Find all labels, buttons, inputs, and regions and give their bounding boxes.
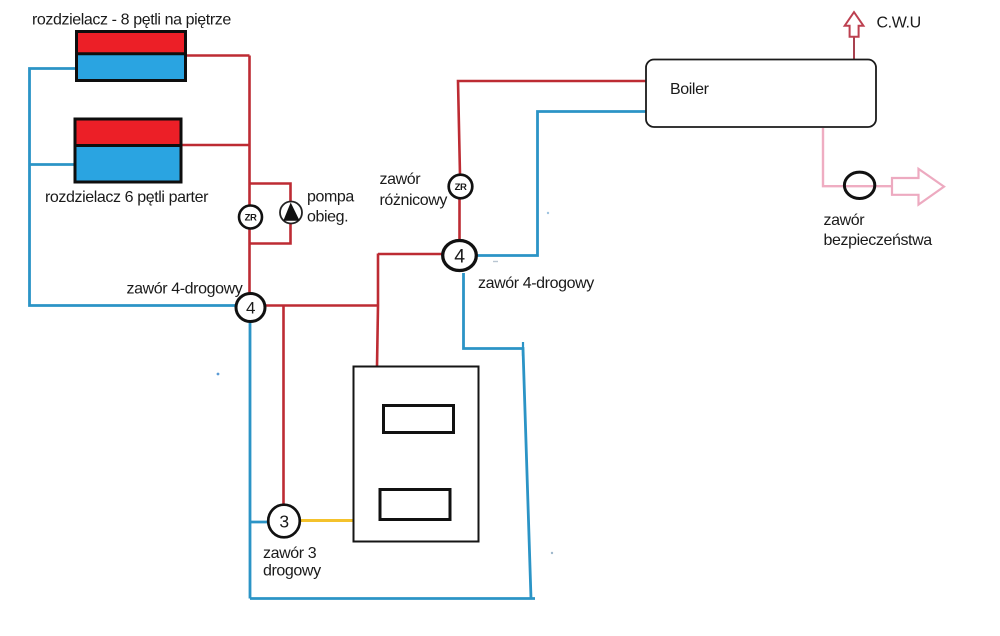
manifold M1 rozdzielacz 8 petli [75,32,187,81]
furnace box [354,367,479,542]
valve ZR right (zawor roznicowy) [449,175,473,199]
wire: yellow 3-way valve to furnace [300,519,356,522]
stray dash [493,261,498,263]
valve 3-way [268,505,300,538]
wire: red main riser ZR to 4-way valve top [248,229,251,295]
wire: red from left 4-way valve right to junction [265,304,379,307]
arrow safety (right block arrow) [892,169,944,205]
manifold M2 rozdzielacz 6 petli [74,119,183,182]
svg-text:zawór: zawór [380,171,422,188]
pump pompa obieg [280,202,302,224]
wire: blue return manifold 2 left edge to left drop [30,163,75,166]
wire: red to right 4-way valve [378,253,444,256]
boiler box [646,60,876,128]
wire: red junction riser up [377,254,380,306]
svg-text:ZR: ZR [455,182,467,193]
arrow C.W.U (up block arrow) [845,12,864,37]
wire: red junction down to furnace top [377,306,378,367]
wire: red differential valve up and right to boiler [458,81,646,175]
wire: red supply from manifold 1 right edge to main riser [187,54,250,57]
svg-text:obieg.: obieg. [307,209,348,226]
wire: red C.W.U stem [853,37,855,60]
valve 4-way left [236,294,265,322]
wire: pink boiler drain through safety valve [823,128,892,186]
wire: red supply from manifold 2 right edge to main riser [182,144,250,147]
valve 4-way right [443,241,477,271]
svg-text:zawór 3: zawór 3 [263,545,317,562]
stray dot 1 [217,373,220,376]
svg-text:Boiler: Boiler [670,81,710,98]
valve ZR left [239,206,262,229]
svg-text:drogowy: drogowy [263,563,321,580]
svg-text:zawór 4-drogowy: zawór 4-drogowy [127,281,243,298]
valve zawor bezpieczenstwa (ellipse) [844,172,874,198]
wire: blue corner tick [522,342,524,356]
svg-text:4: 4 [454,246,465,268]
svg-text:różnicowy: różnicowy [380,192,448,209]
wire: red main riser down to ZR valve [248,56,251,206]
wire: blue stub to 3-way valve [250,521,269,524]
svg-text:4: 4 [246,299,255,318]
svg-text:zawór 4-drogowy: zawór 4-drogowy [478,275,594,292]
svg-text:ZR: ZR [245,213,257,224]
wire: blue right riser to right 4-way valve bottom [464,273,532,599]
svg-text:bezpieczeństwa: bezpieczeństwa [824,232,933,249]
svg-text:3: 3 [279,512,288,532]
svg-text:C.W.U: C.W.U [877,15,921,32]
wire: red branch down to 3-way valve [282,306,285,507]
stray dot 2 [547,212,549,214]
svg-text:pompa: pompa [307,189,354,206]
wire: red right 4-way valve to differential valve ZR [458,199,461,240]
svg-text:rozdzielacz - 8 pętli na piętr: rozdzielacz - 8 pętli na piętrze [32,12,231,29]
wire: blue from left 4-way valve bottom down [249,322,252,599]
wire: blue return manifold 1 left edge to left drop [30,69,238,306]
wire: red pump bypass loop [250,184,291,244]
wire: blue right 4-way valve to boiler [477,112,647,256]
stray dot 3 [551,552,553,554]
svg-text:rozdzielacz 6 pętli parter: rozdzielacz 6 pętli parter [45,189,209,206]
svg-text:zawór: zawór [824,212,866,229]
wire: blue bottom run [250,597,535,600]
